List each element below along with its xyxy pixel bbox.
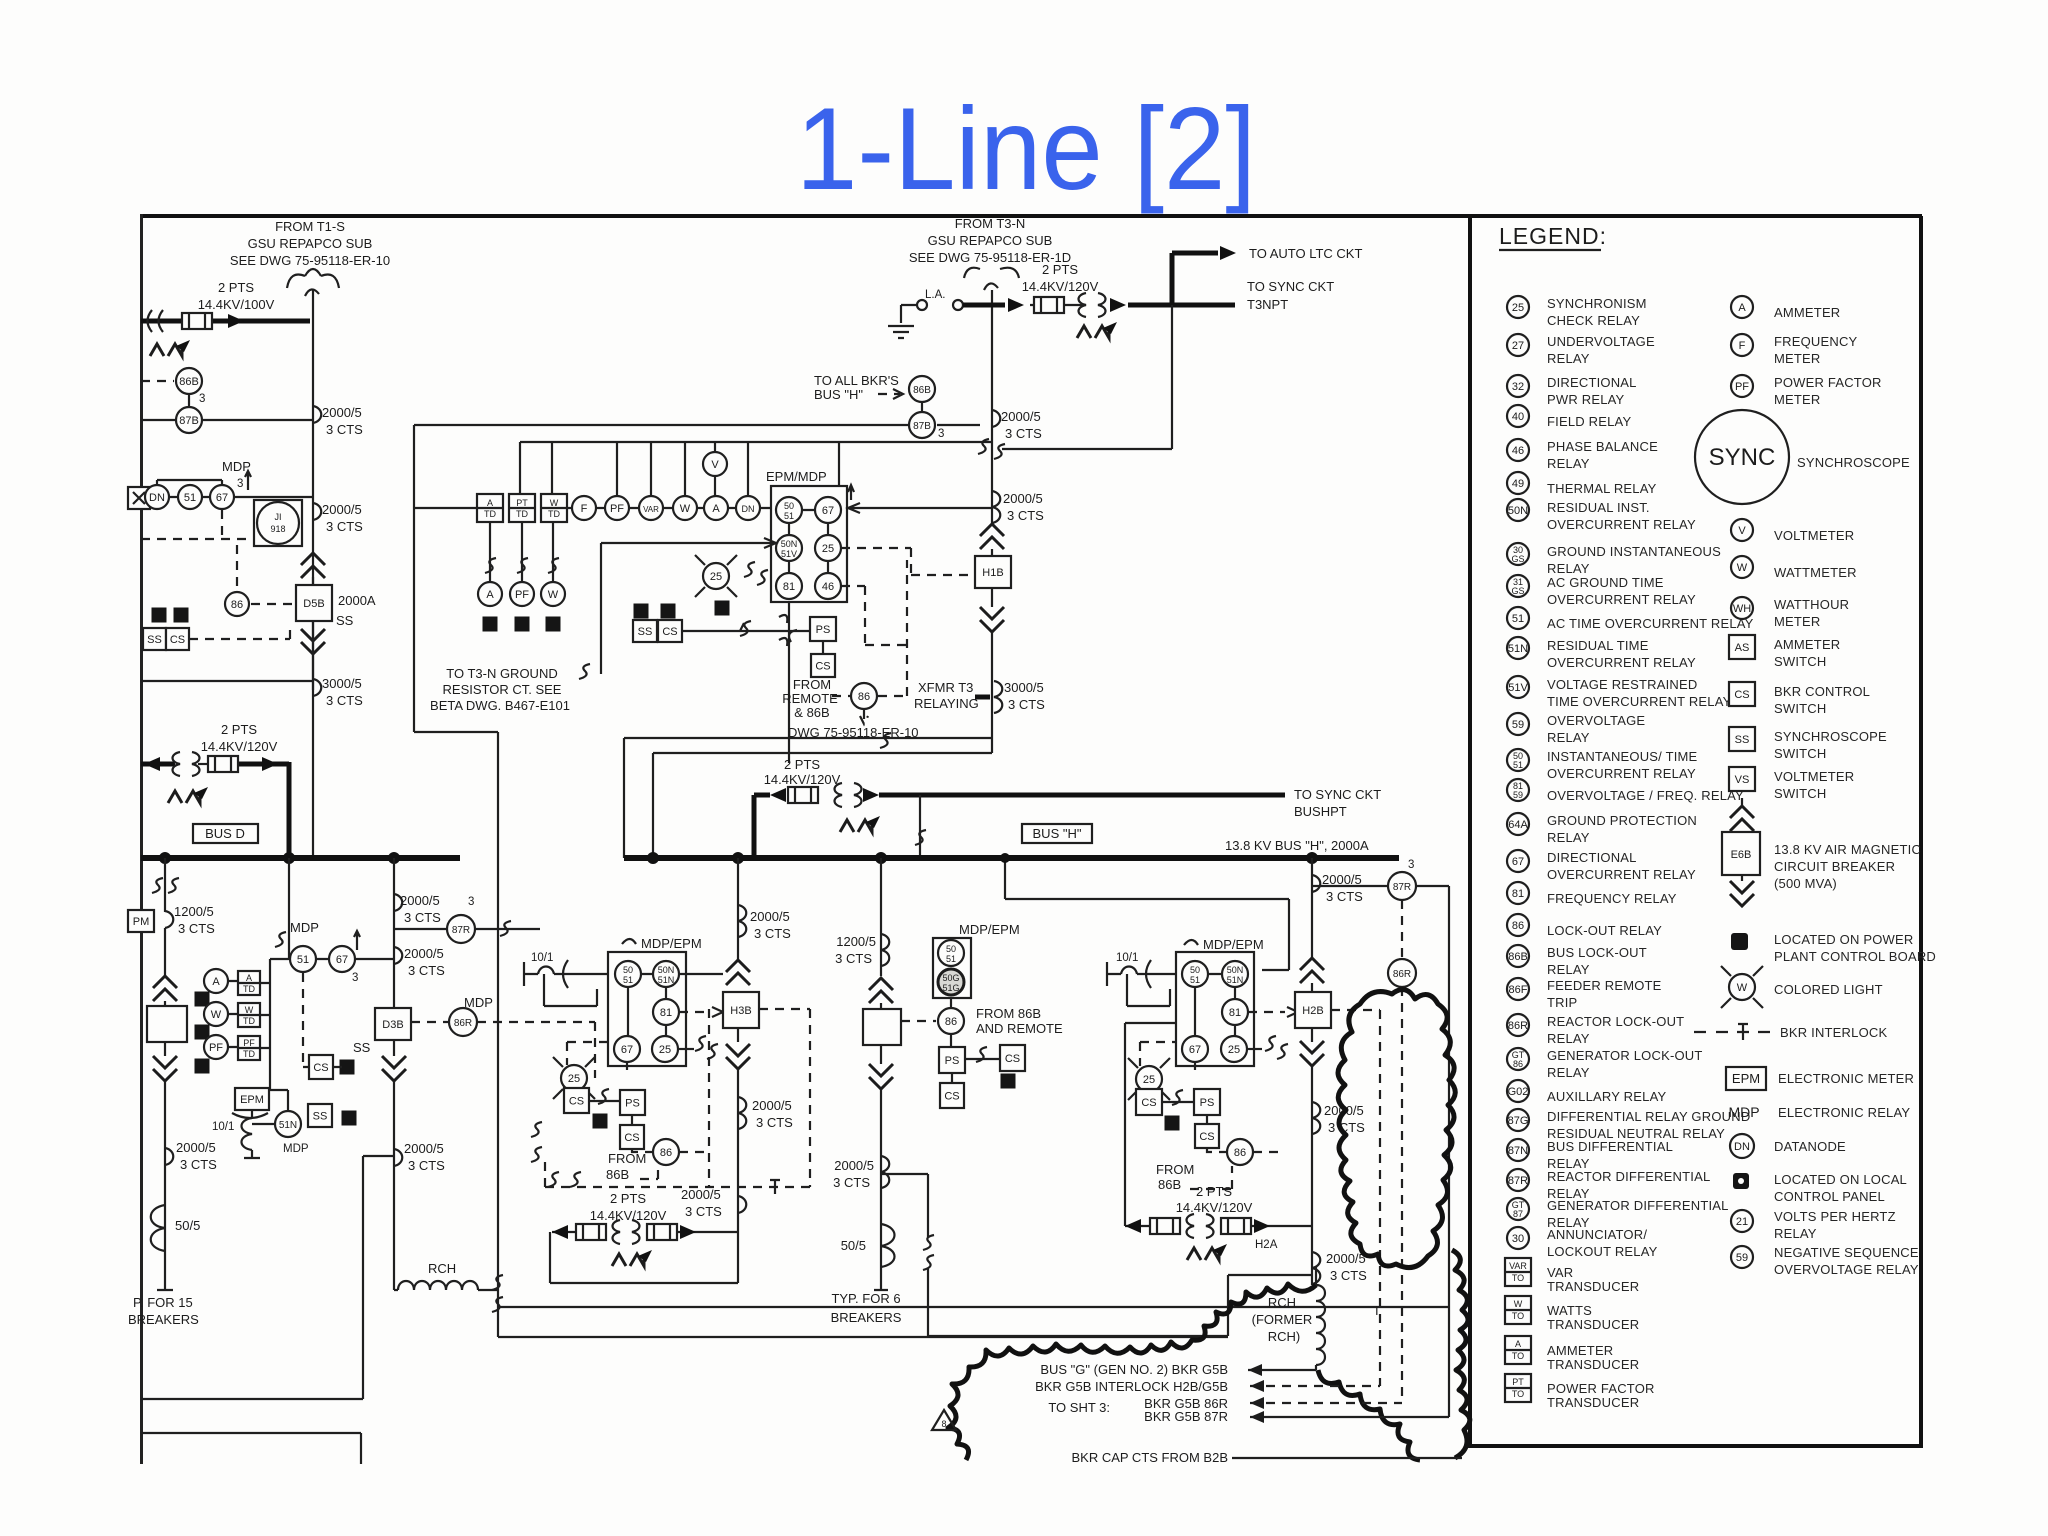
label BUS D box bbox=[193, 824, 258, 843]
svg-text:PS: PS bbox=[816, 624, 831, 636]
relay 50N/51N H3B bbox=[653, 961, 679, 987]
wire brace MDP/EPM H3B bbox=[622, 939, 636, 944]
svg-text:SS: SS bbox=[147, 634, 162, 646]
legend symbol 81/59 overvoltage / freq. relay bbox=[1507, 779, 1529, 801]
wire H2B PT row bbox=[1125, 1023, 1312, 1226]
svg-text:POWER FACTOR: POWER FACTOR bbox=[1774, 375, 1882, 390]
legend symbol 30 annunciator/ bbox=[1507, 1227, 1529, 1249]
wire riser3 D3B join bbox=[393, 1040, 395, 1056]
relay 86 mid feeder bbox=[938, 1008, 964, 1034]
wire squiggle after RCH bbox=[492, 1275, 503, 1290]
legend symbol W wattmeter bbox=[1731, 556, 1753, 578]
svg-text:86: 86 bbox=[660, 1147, 672, 1159]
panel square CS left bbox=[174, 608, 189, 623]
wire dashed stub to 86B bbox=[141, 380, 174, 382]
svg-text:51: 51 bbox=[1190, 975, 1200, 985]
wire riser H2B lower bbox=[1311, 1066, 1313, 1285]
legend symbol SS synchroscope bbox=[1729, 727, 1755, 751]
svg-text:EPM: EPM bbox=[240, 1094, 264, 1106]
legend symbol 25 synchronism bbox=[1507, 296, 1529, 318]
svg-text:50N: 50N bbox=[1227, 965, 1244, 975]
svg-text:FROM: FROM bbox=[608, 1151, 646, 1166]
svg-text:COLORED LIGHT: COLORED LIGHT bbox=[1774, 982, 1883, 997]
wire long line y=1307 bbox=[498, 1306, 1448, 1308]
svg-text:E6B: E6B bbox=[1731, 849, 1752, 861]
svg-text:2000/5: 2000/5 bbox=[1001, 409, 1041, 424]
wire branch x=363 bbox=[363, 1156, 394, 1399]
svg-text:PS: PS bbox=[1200, 1097, 1215, 1109]
svg-text:DIRECTIONAL: DIRECTIONAL bbox=[1547, 850, 1637, 865]
svg-text:RELAY: RELAY bbox=[1547, 561, 1590, 576]
legend symbol 59 overvoltage bbox=[1507, 713, 1529, 735]
svg-text:2000/5: 2000/5 bbox=[1326, 1251, 1366, 1266]
svg-text:GSU REPAPCO SUB: GSU REPAPCO SUB bbox=[248, 236, 373, 251]
relay 81 H2B bbox=[1222, 999, 1248, 1025]
wire DWG boundary drop x=624 bbox=[623, 738, 625, 858]
wire thick riser to bus D bbox=[287, 762, 292, 857]
transformer coils T3-N bbox=[1079, 293, 1106, 317]
svg-text:BUS D: BUS D bbox=[205, 826, 245, 841]
transducer PT TD box bbox=[509, 494, 535, 522]
legend symbol 87G differential relay ground bbox=[1507, 1109, 1529, 1131]
svg-text:GSU REPAPCO SUB: GSU REPAPCO SUB bbox=[928, 233, 1053, 248]
svg-text:50N: 50N bbox=[1508, 505, 1528, 517]
legend symbol G02 auxillary relay bbox=[1507, 1080, 1529, 1102]
svg-text:FREQUENCY: FREQUENCY bbox=[1774, 334, 1858, 349]
svg-text:TO SHT 3:: TO SHT 3: bbox=[1048, 1400, 1110, 1415]
wire riser1 from bus D bbox=[164, 858, 166, 912]
svg-text:H2B: H2B bbox=[1302, 1005, 1323, 1017]
CT 50/5 mid bbox=[881, 1224, 895, 1267]
meter A circle left cluster bbox=[204, 969, 228, 993]
wire 10/1 to cluster bbox=[544, 974, 608, 1006]
svg-text:50N: 50N bbox=[658, 965, 675, 975]
svg-text:W: W bbox=[245, 1005, 254, 1015]
relay DN left bbox=[145, 485, 169, 509]
svg-text:27: 27 bbox=[1512, 340, 1524, 352]
switch CS box D3B bbox=[309, 1055, 333, 1079]
legend symbol VS voltmeter bbox=[1729, 767, 1755, 791]
svg-text:2 PTS: 2 PTS bbox=[1196, 1184, 1232, 1199]
legend symbol GT/87 generator differential bbox=[1507, 1198, 1529, 1220]
legend symbol PT/TO power factor bbox=[1505, 1374, 1531, 1402]
svg-text:25: 25 bbox=[568, 1073, 580, 1085]
svg-text:50G: 50G bbox=[942, 973, 959, 983]
svg-text:CS: CS bbox=[313, 1062, 328, 1074]
legend symbol 40 field relay bbox=[1507, 405, 1529, 427]
svg-text:51: 51 bbox=[946, 954, 956, 964]
svg-text:GS: GS bbox=[1511, 586, 1524, 596]
panel square mid feeder bbox=[1001, 1074, 1016, 1089]
svg-text:2000/5: 2000/5 bbox=[750, 909, 790, 924]
svg-text:3 CTS: 3 CTS bbox=[178, 921, 215, 936]
wire riser1 box joins bbox=[164, 1001, 166, 1056]
junction dot bus H x=881 bbox=[875, 852, 887, 864]
breaker chevrons above H2B bbox=[1300, 958, 1324, 983]
wire dashed D3B to 86R bbox=[411, 1021, 449, 1023]
wire EPM down to 10/1 bbox=[251, 1110, 253, 1118]
svg-text:59: 59 bbox=[1513, 790, 1523, 800]
meter A circle bbox=[704, 496, 728, 520]
svg-text:14.4KV/120V: 14.4KV/120V bbox=[201, 739, 278, 754]
svg-text:TO: TO bbox=[1512, 1351, 1524, 1361]
svg-text:3: 3 bbox=[938, 428, 944, 440]
svg-text:86: 86 bbox=[1513, 1059, 1523, 1069]
wire dashed 86R right bbox=[477, 1022, 595, 1078]
svg-text:RELAY: RELAY bbox=[1547, 830, 1590, 845]
svg-text:67: 67 bbox=[1512, 856, 1524, 868]
svg-text:14.4KV/100V: 14.4KV/100V bbox=[198, 297, 275, 312]
svg-text:CS: CS bbox=[569, 1096, 584, 1108]
svg-text:BKR CAP CTS FROM B2B: BKR CAP CTS FROM B2B bbox=[1071, 1450, 1228, 1465]
drawing top border frame bbox=[141, 214, 1922, 218]
wire PS-CS link bbox=[822, 641, 824, 654]
bus D bbox=[141, 855, 460, 861]
svg-text:PF: PF bbox=[209, 1042, 223, 1054]
svg-text:CS: CS bbox=[1734, 689, 1749, 701]
svg-text:AS: AS bbox=[1735, 642, 1750, 654]
svg-text:BUS LOCK-OUT: BUS LOCK-OUT bbox=[1547, 945, 1647, 960]
svg-text:DN: DN bbox=[149, 492, 165, 504]
breaker chevrons below D3B bbox=[382, 1056, 406, 1081]
svg-text:L.A.: L.A. bbox=[925, 289, 945, 301]
svg-text:MDP/EPM: MDP/EPM bbox=[959, 922, 1020, 937]
svg-text:2 PTS: 2 PTS bbox=[218, 280, 254, 295]
wire top cluster internal bbox=[789, 510, 828, 573]
relay 86 H3B bbox=[653, 1139, 679, 1165]
cloud tall right edge bbox=[1452, 1250, 1470, 1458]
svg-text:TD: TD bbox=[548, 509, 560, 519]
svg-text:FREQUENCY RELAY: FREQUENCY RELAY bbox=[1547, 891, 1677, 906]
legend symbol 30/GS ground instantaneous bbox=[1507, 543, 1529, 565]
svg-text:25: 25 bbox=[659, 1044, 671, 1056]
svg-text:LEGEND:: LEGEND: bbox=[1499, 223, 1607, 249]
svg-text:49: 49 bbox=[1512, 478, 1524, 490]
wire dashed 81 to H3B bbox=[679, 1011, 710, 1013]
wire mid branch right bbox=[881, 1174, 928, 1237]
light 25 H2B bbox=[1136, 1066, 1162, 1092]
svg-text:2000/5: 2000/5 bbox=[322, 405, 362, 420]
svg-text:TO AUTO LTC CKT: TO AUTO LTC CKT bbox=[1249, 246, 1362, 261]
wire relay row y=959 bbox=[289, 958, 394, 960]
wire squiggle T3N resistor pointer bbox=[579, 664, 590, 679]
svg-text:CS: CS bbox=[170, 634, 185, 646]
svg-text:AC GROUND TIME: AC GROUND TIME bbox=[1547, 575, 1664, 590]
svg-text:DATANODE: DATANODE bbox=[1774, 1139, 1846, 1154]
relay 25 H2B bbox=[1221, 1036, 1247, 1062]
relay 50N/51N H2B bbox=[1222, 961, 1248, 987]
svg-text:AMMETER: AMMETER bbox=[1774, 305, 1840, 320]
svg-text:BKR CONTROL: BKR CONTROL bbox=[1774, 684, 1870, 699]
wire H3B cluster internal bbox=[628, 974, 666, 1036]
junction dot x=1005 bbox=[1000, 853, 1010, 863]
svg-text:3 CTS: 3 CTS bbox=[326, 693, 363, 708]
svg-text:OVERVOLTAGE: OVERVOLTAGE bbox=[1547, 713, 1645, 728]
wire H1B joins bbox=[991, 549, 993, 607]
svg-text:3 CTS: 3 CTS bbox=[404, 910, 441, 925]
svg-text:RELAYING: RELAYING bbox=[914, 696, 979, 711]
meter DN circle bbox=[736, 496, 760, 520]
svg-text:14.4KV/120V: 14.4KV/120V bbox=[590, 1208, 667, 1223]
svg-text:3 CTS: 3 CTS bbox=[180, 1157, 217, 1172]
wire 87B to CT bbox=[202, 419, 313, 421]
svg-text:OVERCURRENT RELAY: OVERCURRENT RELAY bbox=[1547, 655, 1696, 670]
svg-text:87R: 87R bbox=[1393, 882, 1411, 893]
svg-text:SEE DWG 75-95118-ER-10: SEE DWG 75-95118-ER-10 bbox=[230, 253, 390, 268]
svg-text:87R: 87R bbox=[452, 925, 470, 936]
svg-text:86R: 86R bbox=[1393, 969, 1411, 980]
svg-text:RCH: RCH bbox=[1268, 1295, 1296, 1310]
svg-text:BKR G5B 87R: BKR G5B 87R bbox=[1144, 1409, 1228, 1424]
svg-text:RELAY: RELAY bbox=[1547, 962, 1590, 977]
svg-text:3 CTS: 3 CTS bbox=[685, 1204, 722, 1219]
legend symbol 86 lock-out relay bbox=[1507, 914, 1529, 936]
junction dot x=653 bus H bbox=[647, 852, 659, 864]
svg-text:2000/5: 2000/5 bbox=[400, 893, 440, 908]
wire bus drop x=1005 to y899 bbox=[1005, 858, 1289, 970]
wire dashed 86R down bbox=[1401, 987, 1403, 1399]
svg-text:RESISTOR CT. SEE: RESISTOR CT. SEE bbox=[443, 682, 562, 697]
cloud revision blob right bbox=[1338, 990, 1455, 1268]
svg-text:REACTOR DIFFERENTIAL: REACTOR DIFFERENTIAL bbox=[1547, 1169, 1710, 1184]
svg-text:PS: PS bbox=[945, 1055, 960, 1067]
wire H3B riser bottom to y1283 bbox=[550, 1232, 738, 1283]
CT 2000/5 H3B mid bbox=[738, 1097, 746, 1129]
svg-text:F: F bbox=[1739, 340, 1746, 352]
svg-text:67: 67 bbox=[822, 505, 834, 517]
wire 25 H2B out squiggles bbox=[1247, 1048, 1262, 1050]
wire 86B-87B link bbox=[921, 402, 923, 412]
svg-text:GROUND PROTECTION: GROUND PROTECTION bbox=[1547, 813, 1697, 828]
svg-text:51: 51 bbox=[623, 975, 633, 985]
transformer PT box H2B 1 bbox=[1150, 1218, 1180, 1234]
svg-text:VOLTAGE RESTRAINED: VOLTAGE RESTRAINED bbox=[1547, 677, 1697, 692]
CT hooks riser3 lower bbox=[394, 947, 402, 964]
wire brace under EPM bbox=[232, 1113, 268, 1118]
svg-text:59: 59 bbox=[1512, 719, 1524, 731]
svg-text:81: 81 bbox=[1229, 1007, 1241, 1019]
svg-text:THERMAL RELAY: THERMAL RELAY bbox=[1547, 481, 1657, 496]
CT 2000/5 H2B bottom bbox=[1312, 1252, 1320, 1284]
svg-text:2000/5: 2000/5 bbox=[322, 502, 362, 517]
wire D5B riser segment bbox=[312, 577, 314, 690]
meter W circle row2 bbox=[541, 582, 565, 606]
legend symbol 51 ac time overcurrent relay bbox=[1507, 607, 1529, 629]
breaker chevrons down mid bbox=[869, 1064, 893, 1089]
breaker chevrons below D5B bbox=[301, 629, 325, 654]
svg-text:1-Line [2]: 1-Line [2] bbox=[796, 83, 1256, 214]
transformer PT box sync bbox=[788, 787, 818, 803]
wire CS to PS H3B bbox=[589, 1100, 620, 1102]
svg-text:DN: DN bbox=[742, 504, 755, 514]
svg-text:51V: 51V bbox=[1508, 682, 1528, 694]
wire thick T3-N PT line bbox=[963, 303, 1235, 308]
relay 50/51 H2B bbox=[1182, 961, 1208, 987]
svg-text:25: 25 bbox=[710, 571, 722, 583]
wire thick tick at 3000/5 bbox=[975, 695, 990, 700]
svg-text:TO: TO bbox=[1512, 1389, 1524, 1399]
wire sync drop x=920 bbox=[919, 795, 921, 858]
breaker arrow T3-N PT 2 bbox=[1110, 298, 1126, 312]
svg-text:BUS DIFFERENTIAL: BUS DIFFERENTIAL bbox=[1547, 1139, 1673, 1154]
legend symbol MDP electronic relay bbox=[1728, 1104, 1910, 1120]
relay 50/51 top cluster bbox=[776, 497, 802, 523]
panel square under 25 light bbox=[715, 601, 730, 616]
svg-text:A: A bbox=[212, 976, 220, 988]
svg-text:JI: JI bbox=[274, 512, 281, 522]
bus H bbox=[624, 855, 1399, 861]
wire transducer drops bbox=[490, 522, 553, 581]
svg-text:81: 81 bbox=[783, 581, 795, 593]
meter PF circle bbox=[605, 496, 629, 520]
svg-text:AC TIME OVERCURRENT RELAY: AC TIME OVERCURRENT RELAY bbox=[1547, 616, 1754, 631]
transducer A TD box bbox=[477, 494, 503, 522]
wire squiggle after 87R bbox=[500, 921, 511, 936]
svg-text:PLANT CONTROL BOARD: PLANT CONTROL BOARD bbox=[1774, 949, 1936, 964]
svg-text:BREAKERS: BREAKERS bbox=[831, 1310, 902, 1325]
wire 87R row bbox=[394, 928, 540, 930]
svg-text:3 CTS: 3 CTS bbox=[1008, 697, 1045, 712]
svg-text:14.4KV/120V: 14.4KV/120V bbox=[1176, 1200, 1253, 1215]
wire big squiggle on main vertical bbox=[978, 439, 989, 454]
panel square H2B bbox=[1165, 1116, 1180, 1131]
warning triangle 8 bbox=[932, 1410, 956, 1430]
svg-text:51: 51 bbox=[297, 954, 309, 966]
svg-text:A: A bbox=[487, 498, 493, 508]
switch PS box mid feeder bbox=[939, 1047, 965, 1073]
wire squiggle riser2 bbox=[275, 932, 286, 947]
wire thick PT feeder line y=321 bbox=[141, 319, 310, 324]
CT 3000/5 main vertical bbox=[994, 681, 1002, 713]
meter PF circle left cluster bbox=[204, 1035, 228, 1059]
svg-text:RCH): RCH) bbox=[1268, 1329, 1301, 1344]
legend symbol 67 directional bbox=[1507, 850, 1529, 872]
svg-text:MDP/EPM: MDP/EPM bbox=[1203, 937, 1264, 952]
switch CS box mid bbox=[658, 620, 682, 642]
breaker chevrons up riser1 bbox=[153, 976, 177, 1001]
svg-text:ELECTRONIC RELAY: ELECTRONIC RELAY bbox=[1778, 1105, 1910, 1120]
relay 46 top cluster bbox=[815, 573, 841, 599]
legend symbol GT/86 generator lock-out bbox=[1507, 1048, 1529, 1070]
relay 86 H2B bbox=[1227, 1139, 1253, 1165]
wire PS-CS2 H2B bbox=[1206, 1115, 1208, 1124]
svg-text:TRANSDUCER: TRANSDUCER bbox=[1547, 1317, 1639, 1332]
svg-text:14.4KV/120V: 14.4KV/120V bbox=[1022, 279, 1099, 294]
svg-text:86: 86 bbox=[1512, 920, 1524, 932]
svg-text:AND REMOTE: AND REMOTE bbox=[976, 1021, 1063, 1036]
svg-text:W: W bbox=[548, 589, 559, 601]
relay 25 top cluster bbox=[815, 535, 841, 561]
svg-text:SWITCH: SWITCH bbox=[1774, 701, 1826, 716]
svg-text:BREAKERS: BREAKERS bbox=[128, 1312, 199, 1327]
svg-text:2 PTS: 2 PTS bbox=[1042, 262, 1078, 277]
svg-text:67: 67 bbox=[621, 1044, 633, 1056]
wire dashed 25/46 to H1B bbox=[841, 548, 978, 645]
legend symbol 86F feeder remote bbox=[1507, 978, 1529, 1000]
wire thick PT line y=764 bbox=[141, 762, 289, 767]
svg-text:DIFFERENTIAL RELAY GROUND: DIFFERENTIAL RELAY GROUND bbox=[1547, 1109, 1750, 1124]
svg-text:86: 86 bbox=[1234, 1147, 1246, 1159]
svg-text:918: 918 bbox=[270, 524, 285, 534]
svg-text:BUSHPT: BUSHPT bbox=[1294, 804, 1347, 819]
legend symbol 21 volts per hertz relay bbox=[1731, 1209, 1896, 1241]
breaker arrow H3B PT right bbox=[680, 1225, 696, 1239]
relay 81 H3B bbox=[653, 999, 679, 1025]
breaker arrow T3-N PT 1 bbox=[1008, 298, 1024, 312]
wire dashed 86 H2B links bbox=[1140, 1042, 1280, 1189]
breaker chevrons down riser1 bbox=[153, 1056, 177, 1081]
svg-text:H2A: H2A bbox=[1255, 1239, 1278, 1251]
meter PF circle row2 bbox=[510, 582, 534, 606]
light 25 circle with rays bbox=[703, 563, 729, 589]
svg-text:WATTHOUR: WATTHOUR bbox=[1774, 597, 1849, 612]
svg-text:87N: 87N bbox=[1508, 1145, 1528, 1157]
switch PS box H2B bbox=[1194, 1089, 1220, 1115]
svg-text:OVERCURRENT RELAY: OVERCURRENT RELAY bbox=[1547, 867, 1696, 882]
legend symbol 59 negative sequence overvoltage relay bbox=[1731, 1245, 1919, 1277]
svg-text:3 CTS: 3 CTS bbox=[408, 963, 445, 978]
wire dashed around 86 mid bbox=[832, 560, 907, 724]
svg-text:TD: TD bbox=[243, 1016, 255, 1026]
switch CS box left bbox=[166, 628, 189, 650]
inductor RCH bbox=[394, 1281, 497, 1290]
switch squiggles transducer bbox=[485, 558, 496, 573]
wire riser2 from bus D bbox=[288, 858, 290, 959]
breaker D5B box bbox=[296, 585, 332, 621]
svg-text:V: V bbox=[1738, 525, 1746, 537]
relay 67 top cluster bbox=[815, 497, 841, 523]
wire brace under T3-N label bbox=[964, 268, 1019, 290]
wire 25 out squiggle bbox=[678, 1048, 694, 1050]
svg-text:NEGATIVE SEQUENCE: NEGATIVE SEQUENCE bbox=[1774, 1245, 1919, 1260]
wire dashed 81 to H2B box bbox=[1248, 1011, 1285, 1013]
panel square below PF bbox=[195, 1059, 210, 1074]
svg-text:51G: 51G bbox=[942, 983, 959, 993]
svg-text:OVERVOLTAGE / FREQ. RELAY: OVERVOLTAGE / FREQ. RELAY bbox=[1547, 788, 1744, 803]
svg-text:3: 3 bbox=[468, 896, 474, 908]
wire T1-S riser vertical x=313 bbox=[312, 290, 314, 857]
wire H3B PT row bbox=[552, 1231, 738, 1233]
breaker arrow H3B PT left bbox=[552, 1225, 568, 1239]
wire long line y=1337 bbox=[498, 1307, 1228, 1337]
svg-text:EPM: EPM bbox=[1732, 1071, 1760, 1086]
wire 81 drop with braces bbox=[788, 602, 790, 763]
svg-text:A: A bbox=[246, 973, 252, 983]
svg-text:87B: 87B bbox=[913, 421, 931, 432]
wire main vertical middle bbox=[991, 380, 993, 524]
svg-text:51N: 51N bbox=[658, 975, 675, 985]
relay 67 riser2 bbox=[329, 946, 355, 972]
relay 51N bbox=[275, 1111, 301, 1137]
svg-text:3 CTS: 3 CTS bbox=[326, 422, 363, 437]
breaker box mid bbox=[863, 1009, 901, 1045]
meter EPM box at frame bbox=[128, 910, 154, 932]
legend symbol colored light bbox=[1721, 966, 1883, 1008]
wire dashed H2B interlock down bbox=[1331, 1010, 1380, 1386]
wire 87R right links bbox=[1312, 886, 1449, 1417]
svg-text:MDP: MDP bbox=[464, 995, 493, 1010]
transformer PT box bus D bbox=[208, 756, 238, 772]
svg-text:TYP. FOR 6: TYP. FOR 6 bbox=[831, 1291, 900, 1306]
wire 51N link bbox=[252, 1090, 288, 1124]
svg-text:AMMETER: AMMETER bbox=[1547, 1343, 1613, 1358]
svg-text:2000/5: 2000/5 bbox=[404, 946, 444, 961]
svg-text:10/1: 10/1 bbox=[212, 1121, 234, 1133]
svg-text:TD: TD bbox=[484, 509, 496, 519]
arrow left bus G bbox=[1248, 1364, 1262, 1376]
svg-text:86: 86 bbox=[231, 599, 243, 611]
svg-text:FROM T1-S: FROM T1-S bbox=[275, 219, 345, 234]
